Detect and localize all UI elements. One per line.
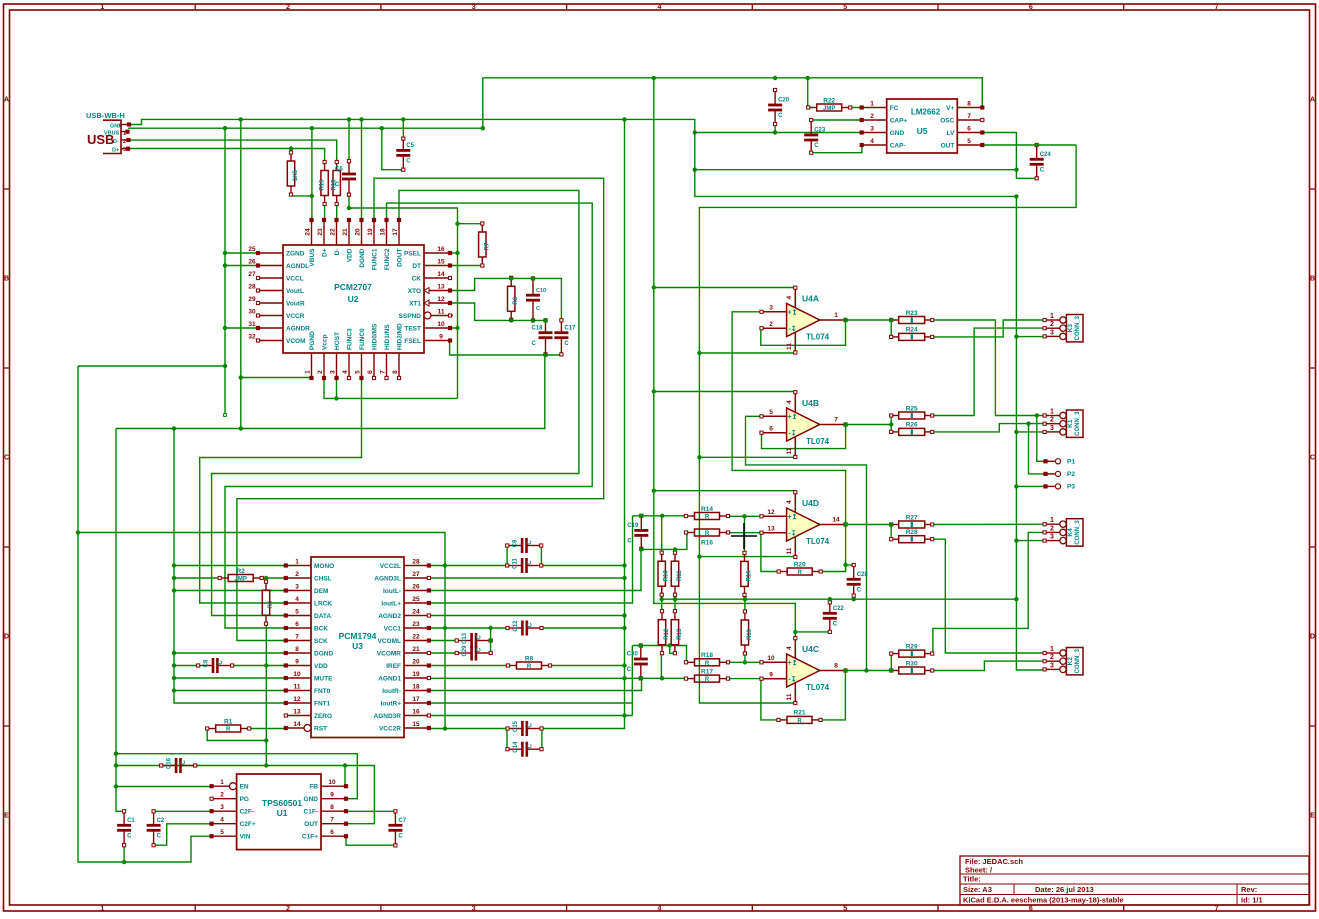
svg-text:C1: C1 [127,818,135,824]
junction [889,422,893,426]
wire P1 riser [1037,416,1046,462]
svg-text:3: 3 [1050,425,1054,432]
svg-text:6: 6 [295,621,299,628]
svg-text:FSEL: FSEL [404,338,421,345]
svg-text:D-: D- [113,139,119,145]
wire FUNC1 to SCK [237,178,604,640]
svg-text:12: 12 [437,296,445,303]
svg-text:CK: CK [412,275,422,282]
capacitor C18 [532,319,553,356]
svg-text:9: 9 [295,659,299,666]
svg-text:Sheet: /: Sheet: / [965,866,993,875]
svg-text:AGND3R: AGND3R [374,713,402,720]
svg-text:C17: C17 [564,325,576,331]
svg-text:CAP+: CAP+ [890,117,908,124]
op-amp U4A [760,286,847,354]
junction [673,597,677,601]
junction [343,763,347,767]
connector K2 CONN_3 [1043,646,1083,675]
junction [455,222,459,226]
junction [852,597,856,601]
svg-text:FNT0: FNT0 [314,688,331,695]
wire VBUS +5V [128,78,982,128]
svg-text:1: 1 [123,131,126,137]
svg-text:4: 4 [220,817,224,824]
svg-text:R27: R27 [906,514,918,521]
title block [960,856,1309,905]
wire U5 GND pin [695,132,862,134]
capacitor C6 [335,160,356,197]
wire R29 R30 bridge [890,654,892,671]
svg-text:C30: C30 [627,652,639,658]
svg-text:GND: GND [304,796,319,803]
svg-text:6: 6 [967,126,971,133]
svg-text:C: C [477,635,483,640]
svg-text:5: 5 [843,906,847,913]
resistor R20 [777,561,822,576]
svg-text:4: 4 [295,596,299,603]
resistor R1 [206,718,251,733]
junction [673,547,677,551]
svg-text:C: C [181,760,187,765]
svg-text:OSC: OSC [940,117,954,124]
capacitor C29 [455,645,492,661]
svg-text:RST: RST [314,725,327,732]
wire VBUS to pin24 [311,128,313,220]
svg-text:23: 23 [412,621,420,628]
wire FSEL to caps [450,341,562,356]
svg-text:2: 2 [123,139,126,145]
svg-text:5: 5 [967,138,971,145]
svg-text:3: 3 [472,4,476,11]
svg-text:K1: K1 [1067,419,1074,428]
wire FNT0 [174,690,286,692]
svg-text:C: C [627,539,632,545]
svg-text:C13: C13 [462,632,468,644]
junction [114,752,118,756]
capacitor C14 [506,741,543,757]
wire GND to pin20 [361,119,363,220]
junction [622,676,626,680]
svg-text:R10: R10 [664,570,670,582]
wire D- to pin22 [336,203,338,220]
svg-text:AGNDR: AGNDR [286,325,310,332]
junction [1014,597,1018,601]
wire R19 bottom [744,654,746,663]
svg-text:FNT1: FNT1 [314,700,331,707]
svg-text:R: R [705,531,710,537]
svg-text:PCM1794: PCM1794 [339,631,377,641]
resistor R24 [890,327,934,341]
svg-text:21: 21 [342,228,349,236]
wire IREF right [549,665,624,667]
svg-text:1: 1 [1050,517,1054,524]
junction [359,117,363,121]
resistor R13b [671,610,683,655]
svg-text:5: 5 [220,829,224,836]
wire AGNDR [225,327,258,329]
svg-text:25: 25 [412,596,420,603]
svg-text:+↥: +↥ [788,309,798,317]
svg-text:VDD: VDD [347,248,354,262]
svg-text:FB: FB [309,784,318,791]
svg-text:VCC2L: VCC2L [380,563,401,570]
junction [172,588,176,592]
wire R10 riser [661,516,663,554]
svg-text:VBUS: VBUS [104,131,120,137]
resistor R17 [684,668,729,683]
svg-text:C22: C22 [833,606,845,612]
wire USB D+ [129,149,325,161]
svg-text:13: 13 [767,526,775,533]
svg-text:C: C [536,306,540,312]
svg-text:U2: U2 [348,294,359,304]
IC U1 TPS60501 [210,774,348,850]
svg-text:FUNC3: FUNC3 [347,328,354,350]
svg-text:7: 7 [1215,906,1219,913]
svg-text:BCK: BCK [314,625,328,632]
junction [889,668,893,672]
svg-text:C24: C24 [1040,152,1052,158]
wire IoutL+ [429,516,633,603]
junction [172,676,176,680]
svg-text:15: 15 [437,259,445,266]
wire ZGND [225,252,258,254]
wire C22 bottom [795,631,830,633]
svg-text:2: 2 [1050,525,1054,532]
svg-text:VIN: VIN [240,834,251,841]
svg-text:CONN_3: CONN_3 [1075,648,1081,673]
junction [843,563,847,567]
svg-text:R17: R17 [701,668,713,675]
junction [1014,538,1018,542]
wire TPS OUT FB [116,766,374,824]
svg-text:11: 11 [786,343,793,350]
svg-text:DT: DT [412,263,421,270]
svg-text:-↧: -↧ [788,325,796,333]
junction [172,688,176,692]
wire XTO [450,278,561,320]
capacitor C8 [197,658,234,673]
resistor R23 [890,310,934,324]
junction [773,130,777,134]
wire -V U4D [699,556,795,558]
wire R10 bottom [661,595,663,612]
svg-text:C6: C6 [335,167,343,173]
svg-text:EN: EN [240,784,249,791]
IC U3 PCM1794 [284,557,430,738]
junction [1014,168,1018,172]
svg-text:V+: V+ [946,105,954,112]
svg-text:12: 12 [293,696,301,703]
svg-text:C16: C16 [167,757,173,769]
svg-text:TEST: TEST [404,325,421,332]
resistor R28 [890,529,934,543]
wire U4A feedback [761,320,846,345]
wire C5 top [402,119,404,138]
wire R26 to K1.2 [932,424,1044,432]
wire rail 428 [116,355,545,429]
wire C20 bottom stub [774,124,776,132]
svg-text:R: R [798,570,803,576]
wire C1 bottom [123,845,125,862]
junction [347,117,351,121]
wire DT to R7 [450,265,482,267]
svg-text:Title:: Title: [963,875,981,884]
capacitor C23 [804,118,826,154]
svg-text:20: 20 [355,228,362,236]
svg-text:2: 2 [870,113,874,120]
wire R15 bottom [744,595,746,599]
wire R15 top riser [744,516,746,553]
svg-text:C20: C20 [778,98,790,104]
svg-text:16: 16 [412,709,420,716]
wire U4C out [846,670,892,672]
junction [543,318,547,322]
svg-text:7: 7 [330,817,334,824]
svg-text:2: 2 [286,4,290,11]
wire R4 bottom to 3V3 [265,624,267,766]
svg-text:Size: A3: Size: A3 [963,885,992,894]
svg-text:R19: R19 [747,628,753,640]
wire D+ to pin23 [324,203,326,220]
junction [622,563,626,567]
wire R16 to U4D- [728,532,761,534]
wire VCOMR [429,652,457,654]
wire -V rail [699,145,1076,703]
svg-text:C28: C28 [857,572,869,578]
svg-text:AGND2: AGND2 [378,613,401,620]
junction [334,396,338,400]
svg-text:R18: R18 [701,652,713,659]
junction [693,130,697,134]
capacitor C9 [506,538,543,553]
svg-text:VCCR: VCCR [286,313,305,320]
svg-text:IoutR+: IoutR+ [381,700,402,707]
resistor R7 [479,222,491,267]
junction [310,126,314,130]
svg-text:11: 11 [438,309,445,316]
svg-text:C8: C8 [204,659,210,667]
resistor R25 [890,405,934,419]
svg-text:7: 7 [834,417,838,424]
wire K4.3 GND [1016,540,1044,542]
svg-text:11: 11 [786,693,793,700]
svg-text:4: 4 [786,400,793,404]
svg-text:VCOMR: VCOMR [377,650,402,657]
wire rail R16 [641,533,687,550]
resistor R3 [508,276,520,321]
svg-text:VBUS: VBUS [309,248,316,267]
svg-text:LV: LV [946,130,954,137]
svg-text:TL074: TL074 [806,333,830,342]
svg-text:17: 17 [412,696,420,703]
svg-text:18: 18 [412,684,420,691]
junction [1014,334,1018,338]
svg-text:17: 17 [392,228,399,236]
svg-text:LM2662: LM2662 [911,108,941,117]
svg-text:AGNDL: AGNDL [286,263,309,270]
resistor R16 [684,529,729,547]
svg-text:15: 15 [412,721,420,728]
junction [488,626,492,630]
wire Vccp [324,378,458,398]
wire 3V3 vertical [116,429,124,812]
wire R14 to U4D+ [728,515,761,517]
junction [223,251,227,255]
svg-text:R: R [705,515,710,521]
svg-text:10: 10 [293,671,301,678]
wire RST [249,728,286,730]
svg-text:5: 5 [355,370,362,374]
wire U4B out [846,424,892,426]
svg-text:TPS60501: TPS60501 [262,798,302,808]
wire FB stub [344,766,346,787]
svg-text:10: 10 [767,655,775,662]
svg-text:3: 3 [295,584,299,591]
junction [455,326,459,330]
wire R24 to K3.1 [932,320,1044,337]
junction [622,613,626,617]
svg-text:JMP: JMP [235,577,247,583]
svg-text:C: C [157,834,162,840]
wire R27 R28 bridge [890,525,892,540]
junction [697,554,701,558]
wire K3.2 to R25 [932,328,1044,415]
svg-text:VCC1: VCC1 [384,625,402,632]
svg-text:K3: K3 [1067,324,1074,333]
test point P2 [1044,471,1075,478]
wire AGND3R [429,715,632,717]
junction [743,660,747,664]
svg-text:Rev:: Rev: [1241,885,1257,894]
junction [843,522,847,526]
svg-text:R15: R15 [747,570,753,582]
svg-text:U4C: U4C [802,644,819,654]
svg-text:GND: GND [890,130,905,137]
junction [223,326,227,330]
junction [864,668,868,672]
wire FUNC0 to LRCK [200,378,362,603]
svg-text:1: 1 [305,370,312,374]
svg-text:3: 3 [1050,329,1054,336]
wire AGNDL [225,265,258,267]
svg-text:3: 3 [769,305,773,312]
wire C1F+ [346,836,395,845]
svg-text:19: 19 [412,671,420,678]
svg-text:C: C [528,723,534,728]
junction [668,643,672,647]
junction [843,422,847,426]
svg-text:10: 10 [328,779,336,786]
svg-text:R4: R4 [268,600,274,608]
svg-text:D: D [1310,634,1315,641]
junction [443,626,447,630]
svg-text:C: C [528,622,534,627]
junction [843,668,847,672]
wire U4D out [846,524,892,526]
test point P1 [1044,459,1075,466]
svg-text:11: 11 [786,447,793,454]
wire VCOM riser [490,628,492,653]
junction [697,351,701,355]
svg-text:2: 2 [1050,417,1054,424]
svg-text:R3: R3 [513,296,519,304]
svg-text:8: 8 [392,370,399,374]
svg-text:MUTE: MUTE [314,675,333,682]
capacitor C16 [160,757,197,773]
wire R19 top [744,599,746,611]
svg-text:HOST: HOST [334,332,341,350]
svg-text:E: E [1310,813,1315,820]
svg-text:C23: C23 [814,128,826,134]
junction [543,353,547,357]
wire DOUT to DATA [212,190,579,615]
wire C14 bridge R [541,729,543,750]
wire +5 rail [654,78,796,638]
svg-text:19: 19 [367,228,374,236]
junction [697,455,701,459]
resistor R10 [658,551,670,596]
svg-text:DATA: DATA [314,613,331,620]
svg-text:25: 25 [248,246,256,253]
wire IoutR- [429,678,642,690]
junction [660,514,664,518]
svg-text:R: R [226,727,231,733]
junction [742,514,746,518]
svg-text:C2: C2 [157,818,165,824]
resistor R12 [287,151,299,196]
junction [264,738,268,742]
svg-text:C19: C19 [627,523,639,529]
capacitor C20 [768,88,790,125]
svg-text:CONN_3: CONN_3 [1075,315,1081,340]
svg-text:TL074: TL074 [806,683,830,692]
svg-text:9: 9 [330,792,334,799]
svg-text:R11: R11 [677,570,683,581]
svg-text:AGND1: AGND1 [378,675,401,682]
svg-text:6: 6 [330,829,334,836]
wire VCC1 left [429,627,508,629]
capacitor C2 [147,810,165,847]
wire PSEL [450,252,458,254]
wire R21 to out [821,671,846,720]
junction [223,126,227,130]
svg-text:C1F+: C1F+ [302,834,318,841]
svg-text:C: C [4,455,9,462]
junction [1014,430,1018,434]
wire GND rail 599 [662,598,1017,600]
wire USB D- [129,140,337,161]
svg-text:P3: P3 [1067,484,1075,491]
svg-text:U4A: U4A [802,294,819,304]
wire R28 to K2.1 [932,539,1044,653]
wire U4B feedback [762,425,846,449]
wire IoutL- [429,549,641,591]
svg-text:C: C [127,834,132,840]
wire MUTE [174,677,286,679]
wire U4C- to R21 [761,679,778,720]
wire VCC2L row left [429,565,507,567]
wire P3 [1016,485,1045,487]
wire EN [116,786,212,788]
junction [122,860,126,864]
wire XT1 [450,303,546,320]
wire GND branch [695,169,1017,171]
svg-text:DGND: DGND [314,650,333,657]
wire PGND [241,377,312,379]
svg-text:U1: U1 [277,808,288,818]
